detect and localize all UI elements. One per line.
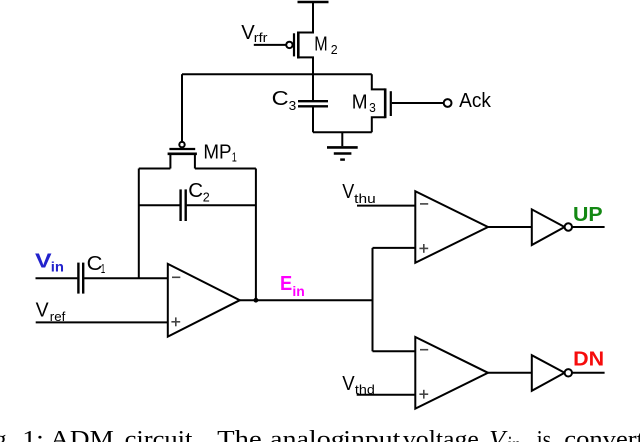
svg-text:2: 2 (203, 190, 210, 205)
comparator DN plus sign (419, 390, 428, 399)
wire bottom horizontal (313, 131, 372, 133)
label C2 (188, 179, 210, 205)
svg-text:in: in (51, 260, 64, 275)
wire Vrfr to M2 gate (254, 44, 286, 46)
svg-text:2: 2 (331, 42, 338, 57)
svg-text:voltage: voltage (403, 427, 479, 442)
wire UP comparator to inverter (488, 226, 532, 228)
comparator DN triangle (415, 337, 488, 409)
ground bar 3 (340, 158, 345, 160)
svg-text:in: in (508, 433, 521, 442)
wire distribution vertical (372, 248, 374, 351)
op-amp U1 minus sign (172, 276, 180, 278)
svg-text:E: E (280, 273, 292, 295)
wire M2 source to rail (298, 2, 314, 33)
op-amp U1 triangle (168, 264, 240, 337)
svg-text:Ack: Ack (459, 89, 491, 112)
svg-text:The: The (217, 427, 262, 442)
svg-text:V: V (489, 427, 508, 442)
label M2 (314, 32, 337, 57)
wire to DN comparator minus (373, 350, 416, 352)
svg-text:V: V (342, 180, 354, 203)
svg-text:in: in (292, 284, 304, 299)
wire C2 left (139, 204, 180, 206)
wire M3 source (372, 117, 385, 132)
inverter DN bubble (565, 369, 572, 376)
wire UP output (572, 226, 605, 228)
svg-text:input: input (343, 427, 400, 442)
svg-text:V: V (35, 251, 52, 273)
capacitor C3 plates (298, 100, 328, 102)
wire feedback right vertical (255, 169, 257, 301)
transistor M3 gate bar (390, 91, 392, 116)
supply rail VDD (298, 1, 329, 3)
svg-text:3: 3 (289, 98, 297, 113)
transistor M2 gate bubble (286, 42, 292, 48)
wire node horizontal (182, 73, 372, 75)
label M3 (352, 90, 376, 115)
svg-text:V: V (36, 298, 49, 321)
label Vthu (342, 180, 375, 206)
wire to UP comparator plus (373, 247, 416, 249)
svg-text:1: 1 (101, 261, 106, 276)
capacitor C2 plates (179, 189, 181, 221)
wire Vthd to DN comparator plus (357, 394, 416, 396)
label Vref (36, 298, 66, 324)
wire M2 drain down to node (298, 57, 314, 75)
wire DN output (572, 372, 605, 374)
svg-text:g.: g. (0, 427, 13, 442)
label Vin (35, 251, 64, 275)
comparator UP minus sign (420, 203, 428, 205)
op-amp U1 plus sign (171, 317, 180, 326)
svg-text:1:: 1: (22, 427, 44, 442)
svg-text:V: V (342, 372, 355, 395)
ground bar 2 (334, 152, 352, 154)
transistor M3 channel bar (384, 88, 387, 118)
wire C2 right (187, 204, 256, 206)
comparator UP triangle (415, 191, 488, 263)
wire node down to C3 (312, 74, 314, 100)
label Vrfr (241, 21, 268, 45)
junction dot output node (254, 298, 259, 303)
ground stem (341, 132, 343, 146)
label Vthd (342, 372, 375, 397)
svg-text:UP: UP (573, 204, 603, 226)
wire M3 drain (372, 74, 385, 89)
wire C1 to op-amp minus (84, 277, 168, 279)
caption text (0, 427, 640, 442)
label C3 (272, 87, 297, 113)
wire feedback top right (195, 168, 256, 170)
svg-text:M: M (352, 90, 368, 113)
svg-text:C: C (188, 179, 203, 202)
wire node down to MP1 gate (181, 74, 183, 142)
comparator DN minus sign (420, 349, 428, 351)
wire feedback left vertical (138, 169, 140, 279)
transistor MP1 source lead (169, 154, 171, 169)
wire DN comparator to inverter (488, 372, 532, 374)
wire Vin input (36, 277, 78, 279)
wire Vref to op-amp plus (36, 321, 168, 323)
inverter DN triangle (532, 355, 565, 391)
svg-text:analog: analog (270, 427, 345, 442)
inverter UP bubble (565, 223, 572, 230)
transistor M2 gate bar (293, 33, 295, 56)
wire op-amp output Ein (240, 299, 373, 301)
svg-text:M: M (314, 32, 327, 55)
transistor MP1 drain lead (194, 154, 196, 169)
capacitor C1 plates (77, 263, 79, 294)
label C1 (87, 252, 106, 276)
wire C3 bottom (312, 107, 314, 132)
transistor MP1 channel bar (168, 153, 197, 156)
svg-text:thu: thu (354, 191, 376, 206)
svg-text:DN: DN (573, 349, 604, 371)
svg-text:rfr: rfr (254, 30, 268, 45)
inverter UP triangle (532, 209, 565, 245)
label MP1 (203, 140, 237, 164)
transistor MP1 gate bubble (179, 142, 184, 147)
transistor MP1 gate bar (169, 148, 195, 150)
svg-text:1: 1 (232, 150, 237, 165)
svg-text:MP: MP (203, 140, 231, 163)
label Ein (280, 273, 305, 299)
comparator UP plus sign (419, 244, 428, 253)
svg-text:ADM: ADM (50, 427, 114, 442)
ground bar 1 (327, 146, 358, 149)
transistor M2 channel bar (297, 32, 300, 59)
wire M3 gate to Ack (392, 102, 444, 104)
svg-text:convert: convert (564, 427, 640, 442)
wire feedback top left (139, 168, 171, 170)
svg-text:3: 3 (369, 100, 376, 115)
svg-text:is: is (537, 427, 552, 442)
svg-text:C: C (272, 87, 289, 110)
svg-text:circuit.: circuit. (125, 427, 200, 442)
terminal Ack circle (444, 99, 452, 107)
wire Vthu to UP comparator minus (357, 205, 415, 207)
